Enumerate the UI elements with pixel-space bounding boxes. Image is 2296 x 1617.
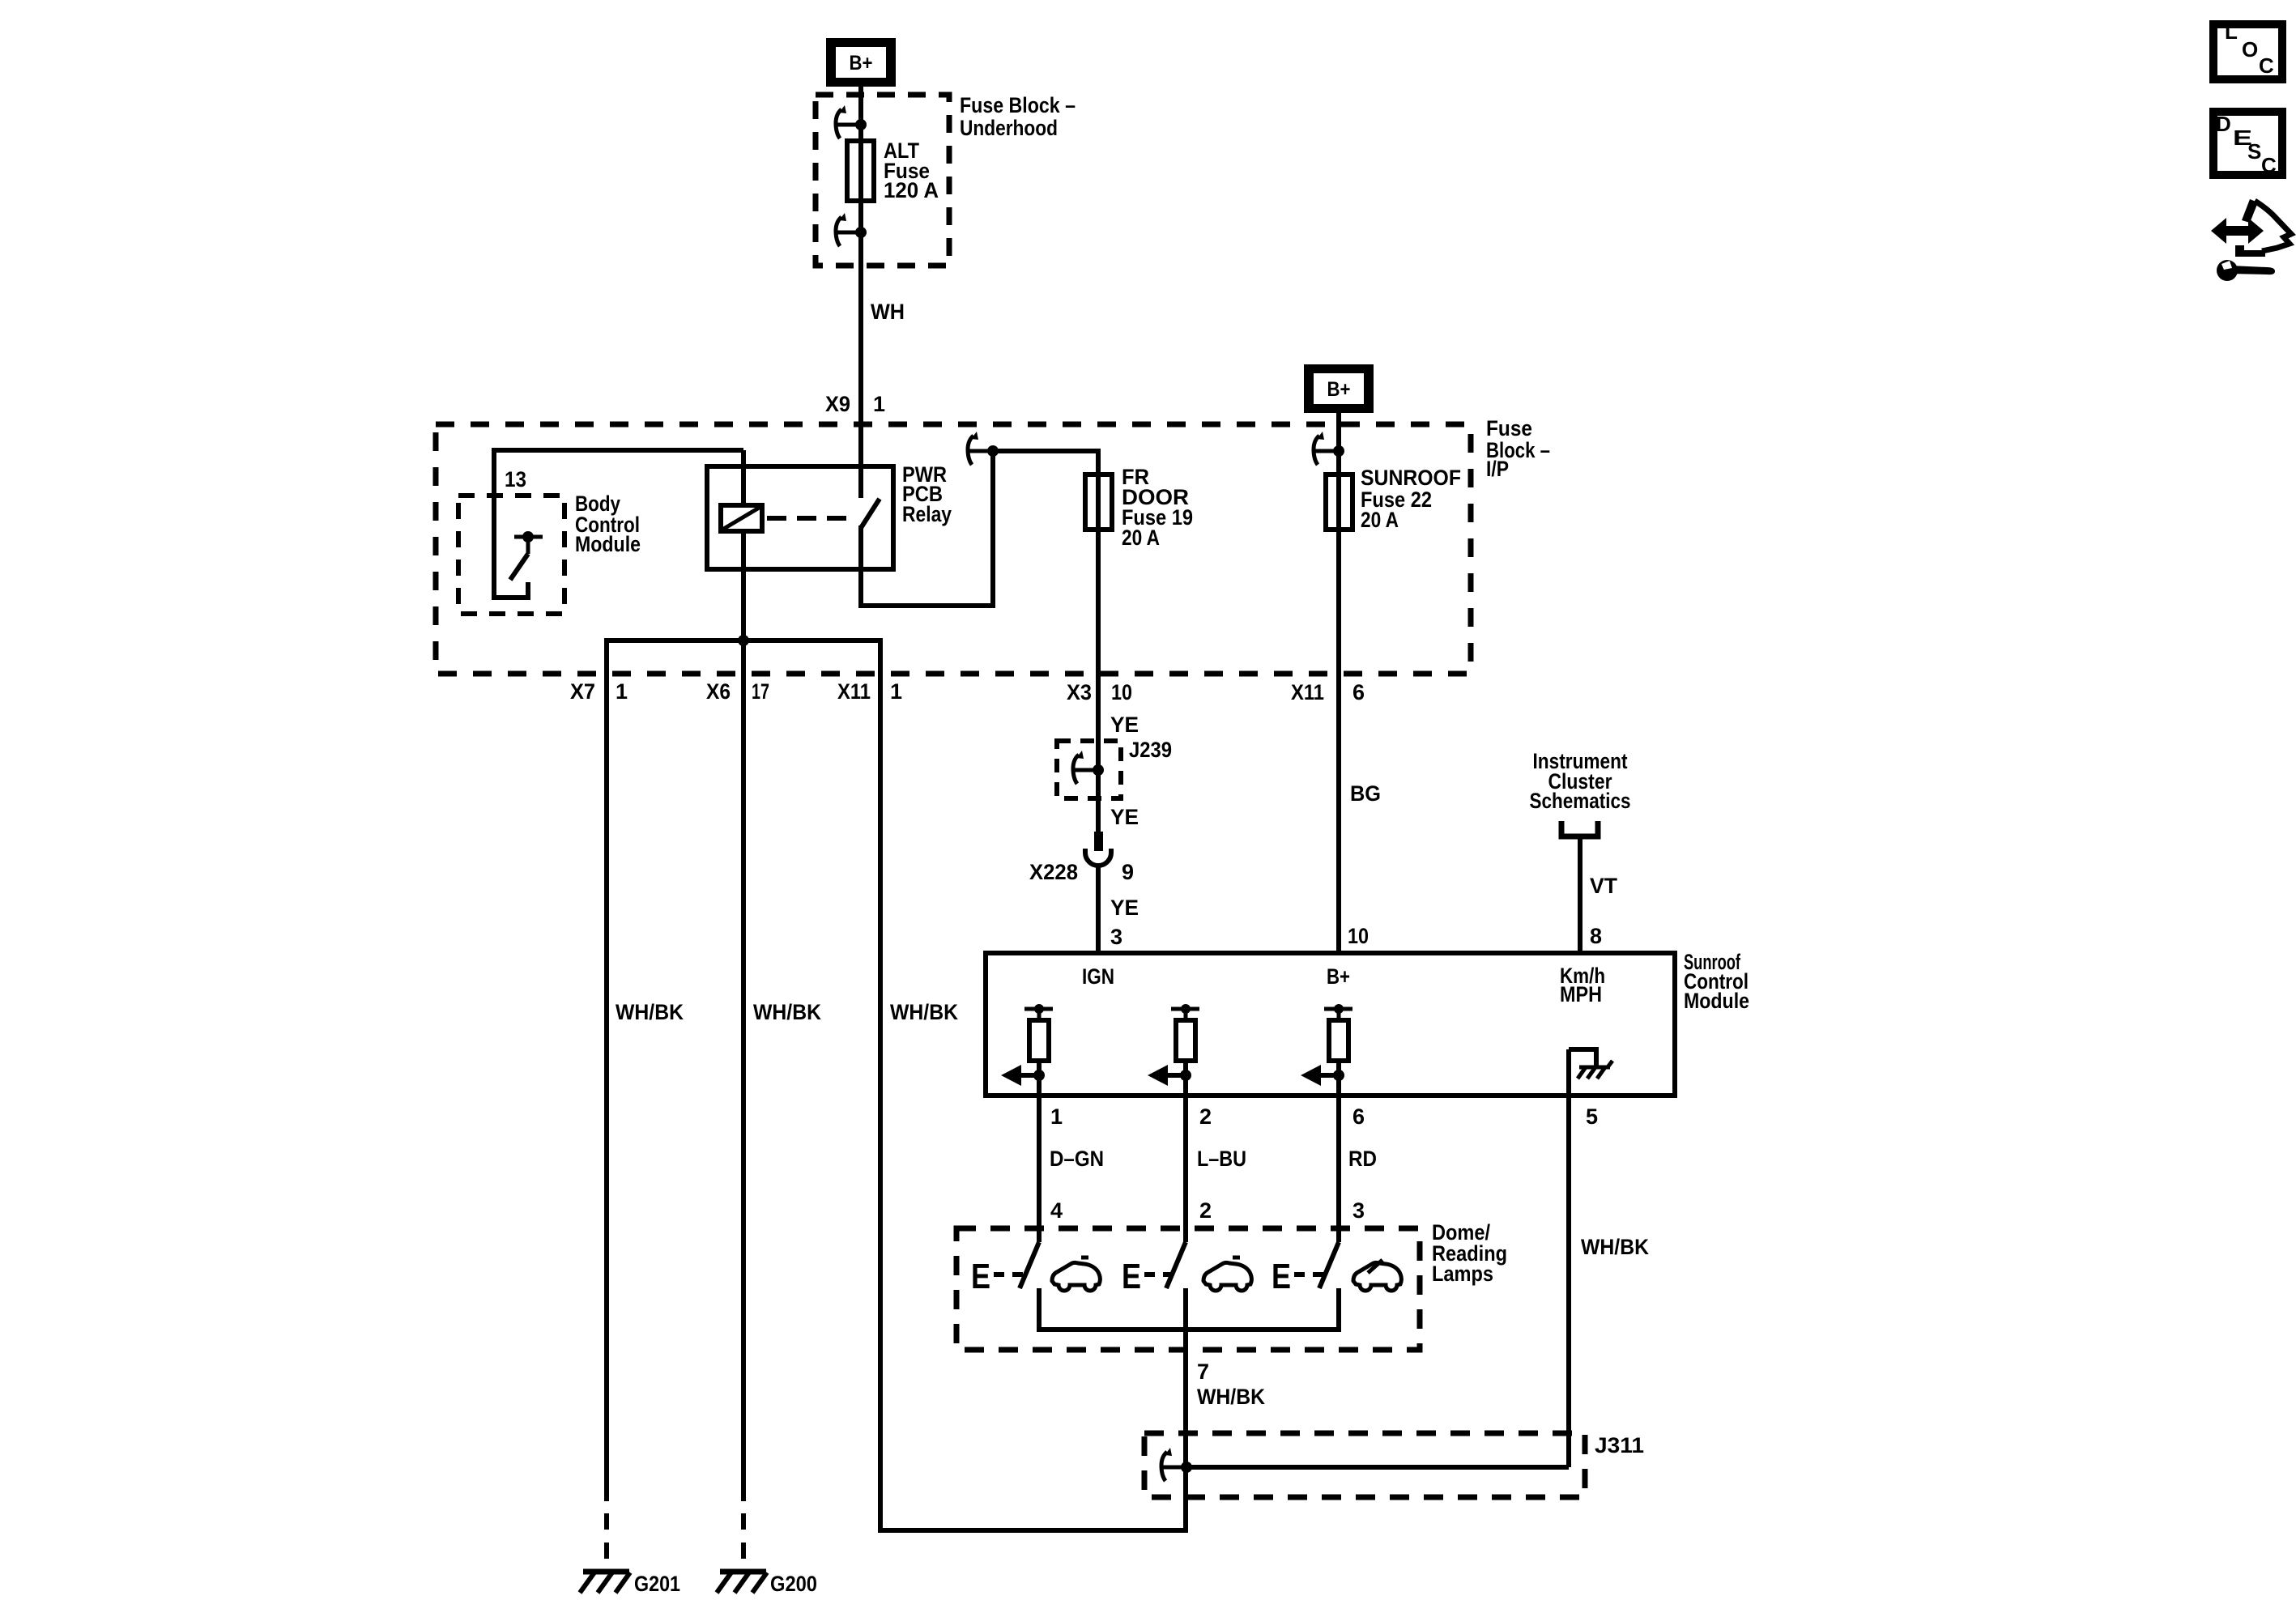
svg-text:Module: Module <box>1684 989 1749 1013</box>
relay PWR PCB Relay box <box>707 466 893 569</box>
svg-text:120 A: 120 A <box>884 178 939 202</box>
svg-text:WH/BK: WH/BK <box>890 1000 958 1024</box>
svg-text:WH/BK: WH/BK <box>616 1000 684 1024</box>
svg-text:G201: G201 <box>634 1572 680 1596</box>
lamp 1 switch with E control <box>971 1242 1039 1332</box>
lamp 3 reading lamp icon <box>1353 1260 1401 1291</box>
svg-text:RD: RD <box>1348 1147 1377 1171</box>
svg-text:S: S <box>2247 139 2261 164</box>
module internal ground (pin 5) <box>1569 1049 1612 1079</box>
relay coil <box>721 450 762 531</box>
lamp 3 switch with E control <box>1272 1242 1339 1332</box>
wire splice J311 to module pin 5 wire <box>1186 1465 1569 1470</box>
svg-text:Underhood: Underhood <box>960 116 1058 140</box>
svg-text:5: 5 <box>1586 1104 1598 1129</box>
driver output 1 (pin 1) <box>1001 1004 1053 1086</box>
svg-text:Relay: Relay <box>902 502 952 526</box>
off-page reference Instrument Cluster Schematics <box>1530 749 1631 836</box>
fuse FR DOOR Fuse 19 <box>1085 474 1112 530</box>
wire VT to module pin 8 <box>1578 839 1582 953</box>
svg-text:X3: X3 <box>1067 680 1092 704</box>
Dome/Reading Lamps dashed box <box>956 1228 1420 1350</box>
wire B+ to SUNROOF fuse down to module pin 10 <box>1336 404 1341 953</box>
svg-text:1: 1 <box>616 679 628 704</box>
svg-text:4: 4 <box>1050 1198 1063 1223</box>
svg-text:3: 3 <box>1352 1198 1365 1223</box>
svg-text:D–GN: D–GN <box>1050 1147 1104 1171</box>
label Dome/ Reading Lamps <box>1432 1220 1507 1286</box>
svg-text:E: E <box>1272 1257 1291 1296</box>
svg-text:1: 1 <box>873 392 885 416</box>
svg-text:D: D <box>2216 112 2231 136</box>
svg-text:6: 6 <box>1352 680 1365 704</box>
relay coil-to-switch dashed link <box>767 516 857 521</box>
fuse ALT Fuse 120 A <box>847 141 874 201</box>
svg-text:3: 3 <box>1110 925 1122 949</box>
ground G200 <box>717 1572 767 1593</box>
svg-text:13: 13 <box>505 467 526 491</box>
label Fuse Block - I/P <box>1486 416 1550 481</box>
svg-text:X11: X11 <box>1291 680 1324 704</box>
fuse terminal clip (top) with junction dot <box>836 105 867 138</box>
svg-text:YE: YE <box>1110 896 1139 920</box>
fuse terminal clip (relay output) <box>968 432 993 465</box>
wire WH/BK X11 pin 1 to lamp return <box>880 638 1186 1530</box>
lamp 2 switch with E control <box>1122 1242 1186 1350</box>
svg-text:MPH: MPH <box>1560 982 1602 1006</box>
splice J239 dashed box <box>1057 741 1121 798</box>
wire relay output to FR DOOR fuse <box>993 451 1098 474</box>
svg-text:J311: J311 <box>1595 1433 1644 1457</box>
connector labels X6 17 <box>706 679 769 704</box>
svg-text:B+: B+ <box>1327 378 1351 401</box>
svg-text:E: E <box>1122 1257 1141 1296</box>
svg-text:Fuse: Fuse <box>1486 416 1532 440</box>
fuse SUNROOF Fuse 22 <box>1326 474 1352 530</box>
power symbol B+ (battery feed, I/P) <box>1304 364 1374 413</box>
wire L-BU module pin 2 to lamp pin 2 <box>1183 1075 1188 1242</box>
svg-text:BG: BG <box>1350 781 1381 806</box>
svg-text:X228: X228 <box>1029 860 1078 884</box>
ground G201 <box>580 1572 630 1593</box>
driver output 2 (pin 2) <box>1148 1004 1199 1086</box>
svg-text:X7: X7 <box>570 679 595 704</box>
dashed wire tail to G201 <box>604 1513 609 1572</box>
svg-text:17: 17 <box>752 679 769 704</box>
connector labels X228 9 <box>1029 860 1134 884</box>
svg-text:WH/BK: WH/BK <box>1197 1385 1265 1409</box>
svg-text:20 A: 20 A <box>1361 508 1399 532</box>
lamp 1 dome lamp icon <box>1052 1257 1100 1291</box>
svg-text:X11: X11 <box>837 679 871 704</box>
svg-text:2: 2 <box>1199 1104 1212 1129</box>
label Fuse Block - Underhood <box>960 93 1076 140</box>
svg-text:WH: WH <box>871 300 905 324</box>
label FR DOOR Fuse 19 20 A <box>1122 465 1193 550</box>
connector labels X7 1 <box>570 679 628 704</box>
svg-text:YE: YE <box>1110 805 1139 829</box>
fuse terminal clip (bottom) with junction dot <box>836 213 867 246</box>
svg-text:Schematics: Schematics <box>1530 789 1631 813</box>
connector labels X11 6 <box>1291 680 1365 704</box>
wire branch from relay coil to X7 and X11 pins <box>607 635 880 646</box>
label Body Control Module <box>575 491 641 556</box>
splice clip J311 with junction dot <box>1161 1448 1192 1481</box>
svg-text:1: 1 <box>890 679 902 704</box>
power symbol B+ (battery feed, underhood) <box>826 38 896 87</box>
fuse terminal clip (sunroof fuse) <box>1314 432 1344 465</box>
dashed wire tail to G200 <box>741 1513 746 1572</box>
svg-text:8: 8 <box>1590 924 1602 948</box>
splice clip J239 with junction dot <box>1073 751 1104 784</box>
icon LOC reference box <box>2213 19 2282 79</box>
icon schematic navigation arrows with wrench <box>2211 199 2291 281</box>
svg-text:J239: J239 <box>1129 738 1172 762</box>
wire WH/BK X6 pin 17 (relay coil) to ground G200 <box>741 531 746 1501</box>
svg-text:X9: X9 <box>825 392 850 416</box>
svg-text:Lamps: Lamps <box>1432 1262 1493 1286</box>
splice J311 dashed box <box>1144 1433 1585 1497</box>
wire WH: B+ through ALT fuse down to relay common <box>858 78 863 498</box>
svg-text:B+: B+ <box>1327 964 1350 989</box>
BCM internal switch <box>510 531 543 580</box>
junction dot relay output <box>987 445 999 457</box>
svg-text:B+: B+ <box>850 52 873 74</box>
svg-text:Fuse Block –: Fuse Block – <box>960 93 1076 117</box>
svg-text:L: L <box>2225 19 2238 44</box>
Fuse Block - I/P dashed box <box>436 424 1471 674</box>
connector labels X11 1 <box>837 679 902 704</box>
connector labels X3 10 <box>1067 680 1132 704</box>
svg-text:2: 2 <box>1199 1198 1212 1223</box>
driver output 3 (pin 6) <box>1301 1004 1352 1086</box>
svg-text:X6: X6 <box>706 679 731 704</box>
wire YE: FR DOOR fuse to module pin 3 <box>1096 530 1101 953</box>
svg-text:Module: Module <box>575 532 641 556</box>
wire BCM pin 13 to relay coil <box>494 448 743 598</box>
wire WH/BK X7 pin 1 to ground G201 <box>604 638 609 1501</box>
svg-text:C: C <box>2259 53 2274 78</box>
label SUNROOF Fuse 22 20 A <box>1361 466 1461 532</box>
wire RD module pin 6 to lamp pin 3 <box>1336 1075 1341 1242</box>
wire lamp pin 7 WH/BK down to splice J311 <box>1183 1330 1188 1533</box>
lamp common bus <box>1039 1327 1339 1332</box>
label Sunroof Control Module <box>1684 950 1749 1013</box>
svg-text:G200: G200 <box>770 1572 817 1596</box>
Sunroof Control Module box <box>986 953 1675 1096</box>
inline connector X228 (male terminal and female cup) <box>1085 832 1111 866</box>
svg-text:6: 6 <box>1352 1104 1365 1129</box>
label ALT Fuse 120 A <box>884 138 939 202</box>
icon DESC reference box <box>2213 112 2282 177</box>
svg-text:1: 1 <box>1050 1104 1063 1129</box>
svg-text:L–BU: L–BU <box>1197 1147 1246 1171</box>
svg-text:10: 10 <box>1111 680 1132 704</box>
wire D-GN module pin 1 to lamp pin 4 <box>1037 1075 1042 1242</box>
svg-text:9: 9 <box>1122 860 1134 884</box>
svg-text:WH/BK: WH/BK <box>1581 1235 1649 1259</box>
connector label X9 pin 1 <box>825 392 885 416</box>
Body Control Module dashed box <box>458 496 564 614</box>
svg-text:E: E <box>971 1257 990 1296</box>
svg-text:7: 7 <box>1197 1360 1209 1384</box>
svg-text:SUNROOF: SUNROOF <box>1361 466 1461 490</box>
Fuse Block - Underhood dashed box <box>816 95 949 266</box>
svg-text:O: O <box>2242 37 2258 62</box>
svg-text:I/P: I/P <box>1486 457 1509 481</box>
svg-text:20 A: 20 A <box>1122 526 1160 550</box>
wire WH/BK module pin 5 to splice J311 <box>1566 1049 1571 1467</box>
module input label Km/h MPH <box>1560 964 1605 1006</box>
svg-text:YE: YE <box>1110 713 1139 737</box>
relay switch output wire <box>861 449 993 606</box>
svg-text:10: 10 <box>1348 924 1369 948</box>
svg-text:VT: VT <box>1590 874 1617 898</box>
svg-text:C: C <box>2261 153 2277 177</box>
label PWR PCB Relay <box>902 462 952 526</box>
relay switch blade <box>861 499 880 528</box>
lamp 2 dome lamp icon <box>1203 1257 1251 1291</box>
svg-text:IGN: IGN <box>1082 964 1114 989</box>
svg-text:WH/BK: WH/BK <box>753 1000 821 1024</box>
